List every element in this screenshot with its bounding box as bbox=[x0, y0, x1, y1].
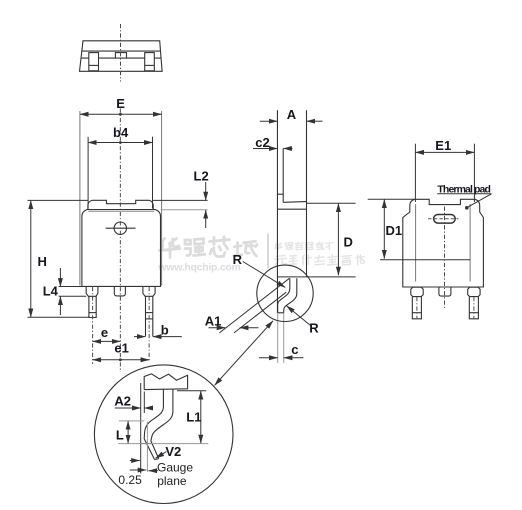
big detail circle bbox=[94, 365, 233, 504]
dimension L bbox=[127, 421, 129, 443]
dimension A bbox=[260, 120, 278, 122]
svg-text:e: e bbox=[101, 325, 108, 340]
side left vertical bbox=[276, 110, 278, 312]
svg-text:b4: b4 bbox=[113, 125, 129, 140]
body outline bbox=[82, 210, 161, 287]
back center lead stub bbox=[439, 287, 451, 296]
watermark divider bar bbox=[267, 234, 269, 269]
side lead foot tick bbox=[278, 312, 284, 314]
back inner verticals bbox=[415, 204, 417, 282]
svg-text:L4: L4 bbox=[43, 283, 59, 298]
center lead stub bbox=[114, 286, 125, 296]
tab step tick bbox=[277, 193, 283, 195]
left lead centerline bbox=[92, 287, 94, 364]
watermark big text 华强芯城 bbox=[157, 234, 364, 274]
svg-text:0.25: 0.25 bbox=[118, 473, 142, 487]
svg-text:c: c bbox=[291, 342, 298, 357]
right lead centerline bbox=[148, 287, 150, 362]
L top extension bbox=[119, 420, 144, 422]
dimension L2 bbox=[153, 199, 208, 201]
dimension E bbox=[80, 113, 162, 115]
svg-text:A2: A2 bbox=[114, 394, 131, 409]
bottom view outline trapezoid bbox=[80, 41, 163, 72]
leader between detail circles bbox=[215, 321, 273, 386]
side lead extensions bbox=[277, 313, 279, 363]
svg-text:E1: E1 bbox=[435, 138, 451, 153]
svg-text:R: R bbox=[309, 321, 319, 336]
detail body section bbox=[144, 374, 187, 390]
back body outline bbox=[403, 199, 484, 287]
bottom view center pad bbox=[115, 53, 126, 59]
svg-text:V2: V2 bbox=[165, 444, 181, 459]
bottom view centerline bbox=[120, 24, 122, 82]
E1 extension lines bbox=[414, 144, 416, 202]
dimension H bbox=[28, 199, 88, 201]
svg-text:D1: D1 bbox=[386, 223, 403, 238]
back right lead shoulder bbox=[468, 287, 480, 296]
svg-text:A1: A1 bbox=[205, 313, 222, 328]
small detail circle bbox=[257, 265, 313, 321]
detail lead right edge bbox=[151, 389, 173, 459]
svg-text:D: D bbox=[344, 234, 353, 249]
dimension A1 bbox=[209, 327, 226, 329]
dimension A2 bbox=[115, 407, 141, 409]
svg-text:L2: L2 bbox=[194, 169, 209, 184]
seating plane line bbox=[118, 443, 208, 445]
svg-text:b: b bbox=[161, 323, 169, 338]
left lead shoulder bbox=[86, 286, 98, 296]
svg-text:www.hqchip.com: www.hqchip.com bbox=[157, 262, 241, 274]
svg-text:L1: L1 bbox=[186, 409, 201, 424]
dimension L4 bbox=[59, 286, 82, 288]
side lead right edge bbox=[284, 278, 297, 313]
right lead bbox=[146, 296, 153, 336]
A1 extension diagonals bbox=[219, 278, 289, 333]
svg-text:H: H bbox=[38, 254, 47, 269]
left lead bbox=[89, 296, 96, 317]
dimension E1 bbox=[415, 151, 474, 153]
pin1 circle bbox=[114, 222, 126, 234]
body top line bbox=[277, 208, 306, 210]
dimension b4 bbox=[88, 142, 152, 144]
dimension D1 bbox=[383, 199, 385, 258]
bottom view inner line lower bbox=[82, 57, 162, 59]
svg-text:L: L bbox=[116, 428, 124, 443]
back left lead shoulder bbox=[411, 287, 423, 296]
front centerline bbox=[119, 109, 121, 373]
watermark right line2 元器件在线商城 bbox=[275, 255, 365, 265]
gauge plane vertical bbox=[146, 422, 148, 473]
0.25 arrows bbox=[130, 460, 140, 462]
svg-text:Gauge: Gauge bbox=[157, 461, 193, 475]
thermal pad slot bbox=[434, 215, 456, 224]
watermark right line1 华强集团旗下 bbox=[275, 242, 334, 250]
D1 top extension bbox=[368, 198, 415, 200]
dimension c2 bbox=[253, 148, 277, 150]
body bottom and D bottom extension bbox=[277, 276, 355, 278]
D top extension bbox=[307, 202, 356, 204]
bottom view right pad bbox=[145, 53, 155, 71]
detail lead tip bbox=[155, 459, 159, 460]
side right vertical bbox=[306, 110, 308, 277]
dimension L1 bbox=[200, 391, 202, 443]
svg-text:plane: plane bbox=[157, 474, 187, 488]
right lead shoulder bbox=[143, 286, 155, 296]
back right lead bbox=[469, 297, 478, 319]
dimension D bbox=[337, 203, 339, 275]
back left lead bbox=[412, 297, 421, 319]
svg-text:R: R bbox=[233, 252, 243, 267]
back centerline bbox=[444, 207, 446, 311]
body top second line bbox=[88, 210, 154, 212]
dimension e1 bbox=[93, 359, 150, 361]
detail lead left edge bbox=[144, 390, 163, 460]
short vertical bbox=[143, 392, 145, 414]
dimension e bbox=[93, 340, 121, 342]
b4 extension lines bbox=[87, 137, 89, 209]
dimension b bbox=[134, 336, 145, 338]
gauge crossing tick bbox=[141, 443, 151, 445]
gauge tangent vertical bbox=[140, 383, 142, 474]
bottom view left pad bbox=[89, 53, 99, 71]
svg-text:e1: e1 bbox=[114, 340, 128, 355]
L1 top extension bbox=[177, 390, 206, 392]
side lead left edge bbox=[278, 278, 290, 313]
svg-text:A: A bbox=[287, 107, 297, 122]
bottom view inner line upper bbox=[82, 50, 161, 52]
tab bottom slant bbox=[283, 201, 306, 204]
tab outline bbox=[88, 200, 153, 209]
dimension c bbox=[259, 357, 278, 359]
c2 inner vertical bbox=[282, 149, 284, 203]
tab bottom line + D1 bottom extension bbox=[380, 259, 470, 261]
E extension lines bbox=[79, 111, 81, 286]
svg-text:c2: c2 bbox=[255, 135, 269, 150]
